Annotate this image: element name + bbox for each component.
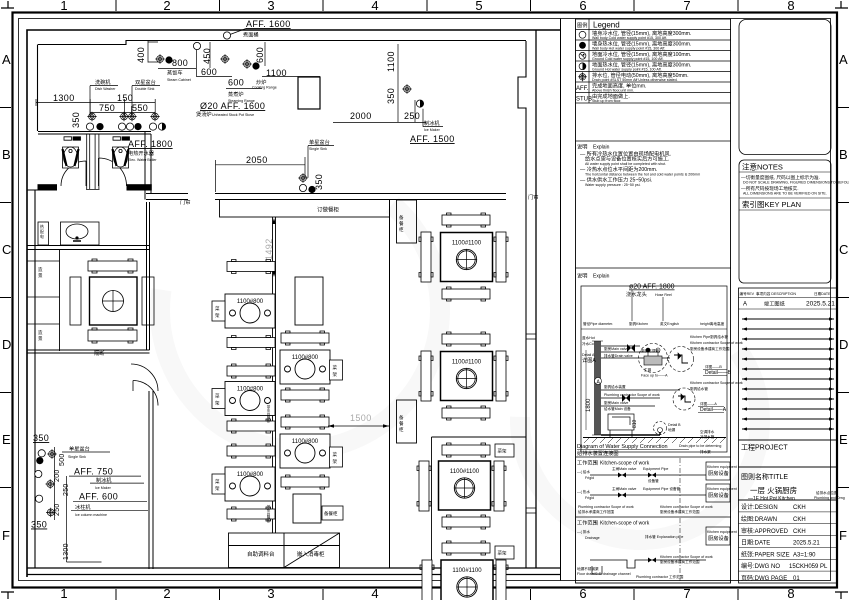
- washroom north counter wall: [38, 132, 151, 135]
- svg-text:1: 1: [60, 0, 67, 13]
- svg-text:厨具方须管: 厨具方须管: [641, 348, 659, 353]
- svg-text:洗碗机: 洗碗机: [95, 78, 111, 86]
- svg-text:厨房设备承建商工作范围: 厨房设备承建商工作范围: [690, 346, 730, 351]
- svg-text:4: 4: [371, 0, 378, 13]
- svg-text:煲汤炉: 煲汤炉: [196, 110, 212, 118]
- svg-text:350: 350: [314, 174, 324, 190]
- rack right of tableA: [330, 360, 343, 380]
- left col table1: [225, 294, 275, 328]
- building left wall inner line: [37, 45, 39, 132]
- column shaft rect: [298, 77, 320, 109]
- svg-text:Kitchen contractor Scope of wo: Kitchen contractor Scope of work: [690, 341, 743, 345]
- svg-text:Detail A: Detail A: [582, 353, 595, 357]
- legend symbol: ground cold water point: [579, 52, 586, 59]
- svg-text:Kitchen contractor Scope of wo: Kitchen contractor Scope of work: [660, 505, 713, 509]
- svg-text:Frigid: Frigid: [585, 476, 594, 480]
- svg-text:主闸Main valve: 主闸Main valve: [612, 486, 636, 491]
- svg-text:350: 350: [31, 520, 47, 530]
- svg-text:Hose Reel: Hose Reel: [655, 293, 672, 297]
- svg-text:A3=1:90: A3=1:90: [793, 553, 816, 559]
- scope2 pipe with trap: [590, 560, 706, 568]
- svg-text:事项内容 DESCRIPTION: 事项内容 DESCRIPTION: [756, 291, 796, 296]
- detail: leader lines: [632, 290, 663, 321]
- svg-text:ALL DIMENSIONS ARE TO BE VERIF: ALL DIMENSIONS ARE TO BE VERIFIED ON SIT…: [743, 192, 827, 196]
- svg-text:Above finish floor,unit mm.: Above finish floor,unit mm.: [592, 89, 634, 93]
- svg-text:DO NOT SCALE DRAWING, FIGURED: DO NOT SCALE DRAWING, FIGURED DIMENSIONS…: [743, 181, 849, 185]
- svg-text:200: 200: [54, 469, 61, 482]
- svg-text:详图——B: 详图——B: [705, 364, 722, 369]
- svg-text:造: 造: [38, 266, 43, 273]
- svg-text:3: 3: [267, 0, 274, 13]
- prep cabinets on mid wall: [397, 200, 417, 243]
- rack for table1: [212, 301, 225, 321]
- symbol circle 煮面桶: [223, 32, 230, 39]
- svg-text:550: 550: [132, 103, 148, 113]
- big table room south wall: [27, 350, 150, 353]
- svg-text:排水渠: 排水渠: [700, 449, 711, 454]
- left col table3: [225, 467, 275, 501]
- svg-text:2000: 2000: [350, 111, 372, 121]
- building top wall inner line: [38, 41, 526, 45]
- svg-text:Wall body Cold water supply po: Wall body Cold water supply point #15, 3…: [592, 36, 667, 40]
- svg-text:工程PROJECT: 工程PROJECT: [741, 443, 788, 452]
- svg-text:3: 3: [267, 586, 274, 600]
- svg-text:图例: 图例: [577, 21, 587, 29]
- svg-text:2: 2: [163, 0, 170, 13]
- rack for table2: [212, 389, 225, 409]
- svg-text:给排水装置连接图: 给排水装置连接图: [577, 449, 619, 457]
- svg-text:Cooking Range: Cooking Range: [252, 86, 277, 90]
- svg-text:Equipment Pipe 设备管: Equipment Pipe 设备管: [643, 486, 681, 491]
- right subcol bench: [281, 475, 329, 489]
- scope1 equipment box row2: [706, 484, 730, 502]
- svg-text:蒸饭车: 蒸饭车: [167, 69, 183, 77]
- detail: mid pipes: [601, 390, 680, 406]
- svg-text:页码:DWG PAGE: 页码:DWG PAGE: [741, 574, 787, 582]
- empty revision rows: [742, 317, 834, 430]
- svg-text:Kitchen equipment: Kitchen equipment: [707, 530, 737, 534]
- svg-text:Elec. Water Boiler: Elec. Water Boiler: [128, 158, 157, 162]
- svg-text:Kitchen contractor Scope of wo: Kitchen contractor Scope of work: [690, 381, 743, 385]
- legend box: [576, 19, 731, 583]
- svg-text:4: 4: [371, 586, 378, 600]
- explain section divider: [576, 140, 732, 142]
- svg-text:Ice Maker: Ice Maker: [424, 128, 441, 132]
- detail: circled A marker: [595, 378, 602, 385]
- ice maker symbols: [402, 84, 411, 93]
- svg-text:Double Sink: Double Sink: [135, 87, 155, 91]
- svg-text:Diagram of Water Supply Co: Diagram of Water Supply Connection: [577, 444, 668, 450]
- leader to circle: [230, 29, 246, 35]
- key plan empty box: [739, 20, 831, 155]
- svg-text:600: 600: [228, 78, 244, 88]
- svg-text:图则名称TITLE: 图则名称TITLE: [741, 472, 788, 481]
- svg-text:1: 1: [60, 586, 67, 600]
- washroom east wall band: [145, 132, 151, 200]
- info table: [739, 500, 838, 583]
- svg-text:茶水台隔断: 茶水台隔断: [266, 404, 271, 423]
- washroom stall partition: [86, 134, 100, 190]
- svg-text:菜架: 菜架: [498, 550, 507, 557]
- svg-text:Plumbing contractor 工作范围: Plumbing contractor 工作范围: [636, 574, 684, 579]
- rotated small dims bottom-left: [54, 453, 70, 560]
- svg-text:厨具Kitchen: 厨具Kitchen: [629, 321, 648, 326]
- svg-text:AFF. 1800: AFF. 1800: [128, 139, 173, 149]
- svg-text:C: C: [839, 242, 848, 257]
- detail: sink unit: [608, 414, 638, 438]
- symbols cooking range: [242, 59, 251, 68]
- svg-text:详图A: 详图A: [582, 356, 596, 364]
- building right wall outer: [535, 30, 537, 568]
- svg-text:制冰机: 制冰机: [424, 119, 440, 127]
- bottom-left room east wall: [149, 391, 153, 569]
- counter 订做餐柜: [220, 200, 390, 218]
- svg-text:厨房Main valve: 厨房Main valve: [604, 346, 628, 351]
- revision table: [739, 288, 838, 440]
- svg-text:5: 5: [475, 0, 482, 13]
- left col bench: [227, 260, 275, 274]
- svg-text:400: 400: [136, 47, 146, 63]
- toilet left: [63, 147, 79, 168]
- detail: ground line with hatch: [583, 437, 726, 439]
- svg-text:A: A: [2, 52, 11, 67]
- long horizontal wall upper line: [146, 194, 506, 200]
- door arc big table room (south wall door): [131, 364, 158, 391]
- self-service console block: [229, 533, 340, 568]
- svg-text:Kitchen Pipe厨具给水管: Kitchen Pipe厨具给水管: [690, 334, 729, 339]
- scope1 equipment box row1: [706, 462, 730, 480]
- legend symbol: wall cold water point: [579, 31, 586, 38]
- svg-text:Stub up from floor.: Stub up from floor.: [592, 99, 621, 103]
- svg-text:Drainage: Drainage: [585, 536, 600, 540]
- svg-text:750: 750: [99, 103, 115, 113]
- svg-text:Kitchen equipment: Kitchen equipment: [707, 465, 737, 469]
- left small rooms column: [59, 250, 61, 352]
- rack right of tableB: [330, 447, 343, 467]
- svg-text:备: 备: [399, 214, 404, 221]
- svg-text:350: 350: [386, 88, 396, 104]
- svg-text:编号:DWG NO: 编号:DWG NO: [741, 562, 780, 570]
- svg-text:设计:DESIGN: 设计:DESIGN: [741, 503, 778, 511]
- sink room south wall: [27, 246, 149, 250]
- svg-text:菜架: 菜架: [498, 448, 507, 455]
- svg-text:D: D: [839, 337, 848, 352]
- svg-text:D: D: [2, 337, 11, 352]
- left col bench: [227, 419, 275, 433]
- svg-text:厨房设备承建商工作范围: 厨房设备承建商工作范围: [660, 509, 700, 514]
- svg-text:1300: 1300: [53, 93, 75, 103]
- svg-text:排水管 Explanation pipe: 排水管 Explanation pipe: [645, 534, 683, 539]
- svg-text:01: 01: [793, 576, 800, 582]
- svg-text:E: E: [2, 432, 11, 447]
- svg-text:—( 热水: —( 热水: [577, 489, 590, 494]
- svg-text:冰柱机: 冰柱机: [75, 503, 91, 511]
- left col bench: [227, 507, 275, 521]
- building outer wall top: [27, 30, 561, 577]
- svg-text:Equipment Pipe: Equipment Pipe: [643, 467, 668, 471]
- svg-text:Kitchen-scope of work: Kitchen-scope of work: [600, 521, 650, 527]
- svg-text:15CKH059 PL: 15CKH059 PL: [789, 564, 828, 570]
- svg-text:Unheated Stock Pot Stove: Unheated Stock Pot Stove: [212, 113, 254, 117]
- svg-text:Kitchen-scope of work: Kitchen-scope of work: [600, 461, 650, 467]
- detail: pipes upper: [601, 346, 670, 358]
- svg-text:给水管Main 设备: 给水管Main 设备: [604, 406, 631, 411]
- svg-text:订做餐柜: 订做餐柜: [317, 206, 340, 214]
- title box: [739, 467, 838, 500]
- svg-text:250: 250: [54, 503, 61, 516]
- detail: bubble A2: [673, 388, 695, 410]
- cistern grilles: [64, 137, 72, 140]
- svg-text:—1F Hot Pot Kitchen: —1F Hot Pot Kitchen: [748, 496, 795, 502]
- svg-text:餐: 餐: [399, 220, 404, 227]
- door arc bottom left room (top): [133, 381, 158, 406]
- scope1 divider: [576, 456, 732, 458]
- svg-text:CKH: CKH: [793, 517, 806, 523]
- panel divider line: [560, 19, 562, 581]
- svg-text:厨房设备: 厨房设备: [708, 534, 730, 542]
- svg-text:Plumbing contractor Scope of w: Plumbing contractor Scope of work: [604, 393, 660, 397]
- svg-text:Steam Cabinet: Steam Cabinet: [167, 78, 191, 82]
- svg-text:审核:APPROVED: 审核:APPROVED: [741, 527, 789, 535]
- detail drawing frame: [581, 286, 727, 452]
- svg-text:地漏: 地漏: [668, 427, 676, 432]
- svg-text:6: 6: [579, 0, 586, 13]
- svg-text:柜: 柜: [399, 426, 404, 433]
- svg-text:管径Pipe diameter.: 管径Pipe diameter.: [583, 321, 613, 326]
- right subcol tableA: [280, 350, 330, 384]
- rack for table3: [212, 474, 225, 494]
- svg-text:热: 热: [40, 224, 44, 229]
- svg-text:注意NOTES: 注意NOTES: [742, 162, 783, 172]
- svg-text:250: 250: [404, 111, 420, 121]
- scope1 division dashline: [679, 458, 681, 515]
- svg-text:Single Sink: Single Sink: [68, 455, 86, 459]
- detail: bottom pipe run: [601, 432, 660, 435]
- svg-text:厨具给水管: 厨具给水管: [690, 386, 708, 391]
- svg-text:800: 800: [172, 58, 188, 68]
- svg-text:B: B: [839, 147, 848, 162]
- svg-text:绘图:DRAWN: 绘图:DRAWN: [741, 515, 777, 523]
- symbols steam cabinet: [155, 54, 164, 63]
- svg-text:Detail B: Detail B: [668, 423, 681, 427]
- svg-text:600: 600: [255, 47, 265, 63]
- svg-text:Explain: Explain: [593, 274, 610, 280]
- svg-text:CKH: CKH: [793, 505, 806, 511]
- svg-text:煮面桶: 煮面桶: [243, 31, 259, 39]
- svg-text:Kitchen equipment: Kitchen equipment: [707, 487, 737, 491]
- svg-text:A: A: [743, 302, 747, 308]
- svg-text:编号REV: 编号REV: [740, 291, 755, 296]
- prep cabinet square: [293, 494, 321, 523]
- left col bench: [227, 336, 275, 350]
- svg-text:Water supply pressure : 25~50: Water supply pressure : 25~50 psi.: [585, 183, 641, 187]
- svg-text:Legend: Legend: [593, 21, 620, 30]
- svg-text:F: F: [839, 528, 847, 543]
- svg-text:2050: 2050: [246, 155, 268, 165]
- washroom door arc left: [61, 161, 86, 186]
- svg-text:厨房设备: 厨房设备: [708, 491, 730, 499]
- big table: [90, 277, 138, 325]
- svg-text:7: 7: [683, 0, 690, 13]
- svg-text:Ice column machine: Ice column machine: [75, 513, 107, 517]
- detail: bottom drain bubble: [654, 422, 682, 435]
- right subcol bench: [281, 388, 329, 402]
- svg-text:AFF. 1600: AFF. 1600: [246, 19, 291, 29]
- svg-text:工作范围: 工作范围: [577, 519, 598, 527]
- prep cabinet label box: [322, 506, 343, 520]
- svg-text:浇水龙头: 浇水龙头: [626, 290, 647, 298]
- svg-text:详图——A: 详图——A: [700, 401, 717, 406]
- svg-text:索引图KEY PLAN: 索引图KEY PLAN: [742, 199, 801, 209]
- right subcol tableB: [280, 434, 330, 468]
- svg-text:Ice Maker: Ice Maker: [95, 486, 112, 490]
- svg-text:ø20 AFF. 1800: ø20 AFF. 1800: [629, 284, 675, 291]
- svg-text:F: F: [2, 528, 10, 543]
- svg-text:设备管: 设备管: [648, 478, 659, 483]
- svg-text:8: 8: [787, 586, 794, 600]
- svg-text:冷凝水管: 冷凝水管: [700, 434, 715, 439]
- sq table 2: [441, 352, 493, 401]
- svg-text:1800: 1800: [586, 398, 592, 412]
- svg-text:1100: 1100: [386, 51, 396, 72]
- svg-text:350: 350: [71, 112, 81, 128]
- big table room east wall: [147, 202, 150, 350]
- svg-text:Floor drain/S.S. drainage chan: Floor drain/S.S. drainage channel: [577, 572, 631, 576]
- svg-text:电: 电: [40, 234, 44, 239]
- svg-text:7: 7: [683, 586, 690, 600]
- wc symbol at 197,46: [193, 42, 200, 49]
- sq table 1: [441, 233, 493, 282]
- project box: [739, 440, 838, 467]
- svg-text:B: B: [2, 147, 11, 162]
- svg-text:1492: 1492: [264, 238, 274, 260]
- svg-text:E: E: [839, 432, 848, 447]
- svg-text:AFF. 1500: AFF. 1500: [410, 134, 455, 144]
- svg-text:Wall body Hot water supply poi: Wall body Hot water supply point #15, 30…: [592, 47, 665, 51]
- svg-text:排水管Drain valve: 排水管Drain valve: [604, 353, 633, 358]
- svg-text:Plumbing and Drng: Plumbing and Drng: [814, 496, 845, 500]
- svg-text:Single Sink: Single Sink: [309, 147, 327, 151]
- svg-text:说明: 说明: [577, 143, 587, 151]
- left wall inner lower: [34, 190, 36, 568]
- left col table2: [225, 382, 275, 416]
- building bottom wall: [27, 568, 561, 575]
- right subcol bench: [281, 415, 329, 429]
- svg-text:Face up to——A: Face up to——A: [641, 374, 668, 378]
- svg-text:6: 6: [579, 586, 586, 600]
- svg-text:810: 810: [632, 419, 638, 428]
- toilet right: [113, 147, 129, 168]
- right subcol plain rect: [295, 277, 323, 325]
- svg-text:厨具给水装置: 厨具给水装置: [604, 384, 626, 389]
- explain bullets: [580, 150, 700, 188]
- svg-text:工作范围: 工作范围: [577, 459, 598, 467]
- svg-text:AFF.: AFF.: [576, 86, 589, 92]
- sq table 4 partial bottom: [441, 560, 493, 600]
- drain at 225,59: [220, 54, 229, 63]
- svg-text:备餐柜: 备餐柜: [324, 510, 338, 517]
- svg-text:Plumbing contractor Scope of w: Plumbing contractor Scope of work: [578, 505, 634, 509]
- left col bench: [227, 444, 275, 458]
- svg-text:日期:DATE: 日期:DATE: [741, 539, 770, 547]
- water point row1 (drains): [87, 112, 96, 121]
- small cell left: [38, 222, 49, 245]
- svg-text:备: 备: [399, 414, 404, 421]
- central divider wall: [273, 217, 276, 533]
- svg-text:1500: 1500: [350, 413, 372, 423]
- svg-text:门帘: 门帘: [528, 193, 538, 201]
- explain2 section divider: [576, 267, 732, 269]
- svg-text:Kitchen contractor Scope of wo: Kitchen contractor Scope of work: [660, 555, 713, 559]
- svg-text:350: 350: [33, 433, 49, 443]
- scope2 division dashline: [679, 518, 681, 581]
- scope2 equipment box: [706, 527, 730, 545]
- svg-text:英文English: 英文English: [660, 321, 679, 326]
- svg-text:Drain pipe to be determing: Drain pipe to be determing: [679, 444, 721, 448]
- svg-text:空调排水: 空调排水: [700, 429, 715, 434]
- detail: wall hatched band: [594, 341, 601, 435]
- svg-text:单星盆台: 单星盆台: [69, 445, 90, 453]
- hand sink room counter: [61, 222, 100, 245]
- svg-text:门帘: 门帘: [180, 198, 190, 206]
- legend symbol: drain point: [578, 72, 587, 81]
- scope2 divider: [576, 516, 732, 518]
- svg-text:地漏不锈钢渠: 地漏不锈钢渠: [577, 566, 599, 571]
- svg-text:电热开水器: 电热开水器: [128, 149, 155, 157]
- svg-text:纸张:PAPER SIZE: 纸张:PAPER SIZE: [741, 551, 790, 559]
- mid vertical wall x390: [389, 200, 391, 569]
- svg-text:AFF. 750: AFF. 750: [74, 467, 113, 477]
- svg-text:给排水承建商工作范围: 给排水承建商工作范围: [578, 509, 614, 514]
- svg-text:厨房Main valve: 厨房Main valve: [604, 400, 628, 405]
- svg-text:Detail——A: Detail——A: [700, 407, 727, 413]
- water point row2: [86, 123, 93, 130]
- svg-text:2025.5.21: 2025.5.21: [793, 541, 820, 547]
- rack labels right column: [495, 444, 514, 457]
- svg-text:Frigid: Frigid: [585, 496, 594, 500]
- svg-text:隔断: 隔断: [94, 349, 104, 357]
- svg-text:Ground Cold water supply point: Ground Cold water supply point #15, 100 …: [592, 57, 663, 61]
- svg-text:日期DATE: 日期DATE: [814, 291, 831, 296]
- legend symbol: ground hot water point: [579, 63, 586, 70]
- svg-text:Ø20 AFF. 1600: Ø20 AFF. 1600: [200, 101, 265, 111]
- washroom south wall solid segments: [38, 185, 57, 190]
- svg-text:450: 450: [202, 48, 212, 64]
- svg-text:Ground Hot water supply point: Ground Hot water supply point #15, 100 A…: [592, 68, 662, 72]
- svg-text:—( 给水: —( 给水: [577, 469, 590, 474]
- svg-text:600: 600: [201, 67, 217, 77]
- svg-text:—( 排水: —( 排水: [577, 529, 590, 534]
- svg-text:STUB: STUB: [576, 97, 592, 103]
- left col bench: [227, 364, 275, 378]
- svg-text:Drain point #SLST 50mm Aff Unl: Drain point #SLST 50mm Aff Unless otherw…: [592, 78, 678, 82]
- detail: bubble A: [639, 344, 668, 373]
- svg-text:The horizontal distance betwee: The horizontal distance between the hot …: [585, 173, 700, 177]
- svg-text:AFF. 600: AFF. 600: [79, 492, 118, 502]
- svg-text:竣工图纸: 竣工图纸: [764, 300, 785, 308]
- svg-text:2: 2: [163, 586, 170, 600]
- svg-text:造: 造: [38, 329, 43, 336]
- svg-text:CKH: CKH: [793, 529, 806, 535]
- right wall door jamb ticks: [526, 334, 536, 513]
- svg-text:Dish Washer: Dish Washer: [95, 87, 116, 91]
- svg-text:All water supply point shall b: All water supply point shall be complete…: [585, 162, 666, 166]
- svg-text:说明: 说明: [577, 272, 587, 280]
- svg-text:嵌入消毒柜: 嵌入消毒柜: [297, 550, 325, 558]
- svg-text:厨房设备: 厨房设备: [708, 469, 730, 477]
- right dining divider wall y437: [432, 436, 527, 438]
- building right wall inner with niche: [518, 41, 526, 568]
